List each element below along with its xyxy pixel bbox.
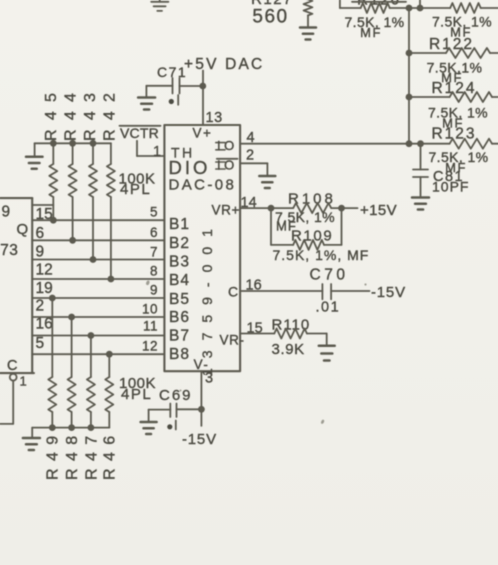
svg-text:13: 13	[206, 110, 223, 126]
resistor R47	[83, 332, 100, 480]
svg-text:9: 9	[2, 203, 11, 220]
wire: data bit 2	[32, 239, 164, 241]
svg-text:V+: V+	[193, 126, 213, 141]
svg-text:R109: R109	[291, 227, 333, 244]
wire: data bit 5	[32, 297, 164, 299]
resistor R48	[64, 314, 81, 480]
svg-text:Q: Q	[17, 221, 29, 238]
ground (C69)	[141, 422, 157, 434]
svg-text:R44: R44	[62, 84, 79, 141]
svg-text:12: 12	[36, 262, 53, 279]
wire: data bit 7	[32, 335, 164, 337]
svg-text:B6: B6	[169, 309, 190, 326]
wire: R110 to ground	[326, 334, 328, 346]
svg-text:C: C	[228, 283, 238, 299]
svg-text:5: 5	[36, 335, 45, 352]
wire: bottom rail	[32, 428, 109, 438]
resistor R49	[45, 295, 62, 480]
resistor R109 (parallel branch)	[271, 208, 369, 263]
resistor R122	[409, 36, 498, 85]
capacitor C71	[146, 64, 202, 105]
wire: pin2 to ground	[240, 163, 267, 175]
svg-text:VR-: VR-	[220, 333, 245, 348]
node: +ref stub junction	[417, 0, 424, 11]
svg-text:560: 560	[252, 6, 288, 27]
svg-text:B5: B5	[169, 291, 190, 308]
svg-text:-15V: -15V	[371, 284, 406, 301]
svg-text:2: 2	[246, 147, 254, 163]
wire: VCTR to pin1	[137, 141, 164, 156]
svg-text:C70: C70	[310, 267, 349, 284]
svg-text:R49: R49	[45, 428, 62, 480]
resistor R44	[62, 84, 79, 244]
svg-text:B1: B1	[169, 216, 190, 233]
node: C81 junction	[417, 140, 424, 147]
resistor R110	[240, 317, 327, 358]
svg-text:R42: R42	[102, 84, 119, 141]
node: R122 junction	[406, 50, 413, 57]
label IO-bar (pin 2)	[216, 157, 238, 172]
resistor R121	[420, 3, 498, 39]
node: R108/R109 right junction	[338, 205, 345, 212]
node: R108/R109 left junction	[268, 205, 275, 212]
svg-text:IO: IO	[217, 157, 238, 172]
svg-text:3.9K: 3.9K	[272, 341, 305, 358]
svg-text:R47: R47	[83, 428, 100, 480]
ground (R127)	[300, 28, 316, 40]
capacitor C69	[149, 387, 202, 430]
svg-text:7.5K, 1%, MF: 7.5K, 1%, MF	[273, 247, 370, 263]
node: bottom rail junctions	[49, 424, 94, 431]
resistor R43	[82, 84, 99, 263]
svg-text:IO: IO	[217, 138, 238, 153]
node: C71 junction	[199, 83, 206, 90]
node: bus top junction	[406, 5, 413, 12]
wire: data bit 4	[32, 278, 164, 280]
svg-text:1: 1	[153, 144, 161, 160]
svg-text:4PL: 4PL	[120, 181, 151, 198]
wire: data bit 1	[32, 219, 164, 221]
svg-text:4PL: 4PL	[121, 386, 152, 403]
svg-text:9: 9	[36, 244, 45, 261]
svg-text:11: 11	[143, 319, 158, 334]
wire	[409, 7, 420, 9]
svg-text:10PF: 10PF	[432, 179, 469, 195]
resistor R127	[251, 0, 312, 27]
svg-text:B7: B7	[169, 328, 190, 345]
wire: data bit 8	[32, 353, 164, 355]
node: R123 bus junction	[406, 140, 413, 147]
wire: pin14	[240, 207, 271, 209]
svg-text:C69: C69	[159, 387, 193, 404]
svg-text:2: 2	[36, 298, 45, 315]
svg-text:9: 9	[150, 283, 158, 298]
ground (bottom rail)	[23, 438, 40, 450]
ground (R110)	[319, 346, 335, 361]
IC U: 273 register body	[0, 198, 34, 373]
svg-text:5: 5	[150, 205, 158, 220]
svg-text:+15V: +15V	[360, 202, 397, 219]
node: C69 junction	[198, 406, 205, 413]
wire: clock	[0, 381, 13, 424]
resistor R124	[409, 80, 498, 131]
svg-text:19: 19	[36, 280, 53, 297]
resistor R126	[340, 0, 409, 40]
resistor R42	[102, 84, 119, 283]
svg-text:1: 1	[20, 374, 27, 389]
wire: pin3 stub	[200, 371, 202, 426]
svg-text:10: 10	[142, 302, 158, 317]
resistor R46	[102, 351, 119, 480]
svg-text:+5V DAC: +5V DAC	[184, 56, 264, 73]
svg-text:273: 273	[0, 242, 18, 259]
svg-text:6: 6	[150, 225, 158, 240]
net VCTR	[120, 125, 161, 141]
svg-text:R48: R48	[64, 428, 81, 480]
svg-text:C: C	[7, 358, 17, 374]
svg-text:DIO: DIO	[169, 157, 211, 178]
op-amp U: DIO DAC-08 body	[164, 125, 240, 371]
wire: pin13 stub	[202, 71, 204, 126]
wire: data bit 3	[32, 259, 164, 261]
clock bubble	[10, 374, 17, 381]
wire: right vertical bus	[408, 8, 410, 144]
svg-text:B3: B3	[169, 254, 190, 271]
capacitor C81	[413, 144, 469, 197]
wire: data bit 6	[32, 316, 164, 318]
ground (C71)	[138, 98, 155, 110]
svg-text:.01: .01	[316, 300, 341, 316]
capacitor C70	[240, 267, 369, 316]
ground (top)	[151, 0, 168, 11]
svg-text:13759-001: 13759-001	[199, 219, 215, 376]
svg-text:VR+: VR+	[212, 203, 240, 218]
svg-text:B4: B4	[169, 272, 190, 289]
svg-text:MF: MF	[360, 25, 382, 40]
svg-text:B8: B8	[169, 346, 190, 363]
svg-text:12: 12	[142, 339, 158, 354]
wire: top pullup rail	[35, 143, 111, 164]
svg-text:DAC-08: DAC-08	[169, 177, 237, 194]
svg-text:R45: R45	[43, 84, 60, 141]
ground (pin2)	[259, 176, 275, 188]
svg-text:16: 16	[36, 316, 53, 333]
svg-text:R43: R43	[82, 84, 99, 141]
svg-text:-15V: -15V	[182, 431, 217, 448]
ground (C81)	[412, 198, 429, 210]
wire: pin15 stub top	[32, 204, 53, 206]
svg-text:B2: B2	[169, 235, 190, 252]
svg-text:VCTR: VCTR	[120, 125, 159, 141]
resistor R123	[421, 125, 498, 175]
svg-text:7: 7	[150, 245, 158, 260]
wire: pin4/IO out	[240, 143, 420, 145]
svg-text:3: 3	[205, 370, 213, 386]
wire to +15V	[342, 207, 358, 209]
ground (top rail)	[26, 157, 43, 169]
svg-text:8: 8	[150, 264, 158, 279]
resistor R45	[43, 84, 60, 224]
svg-text:R46: R46	[102, 428, 119, 480]
label IO (pin 4)	[216, 143, 225, 150]
node: R124 junction	[406, 94, 413, 101]
resistor R108	[271, 190, 342, 233]
